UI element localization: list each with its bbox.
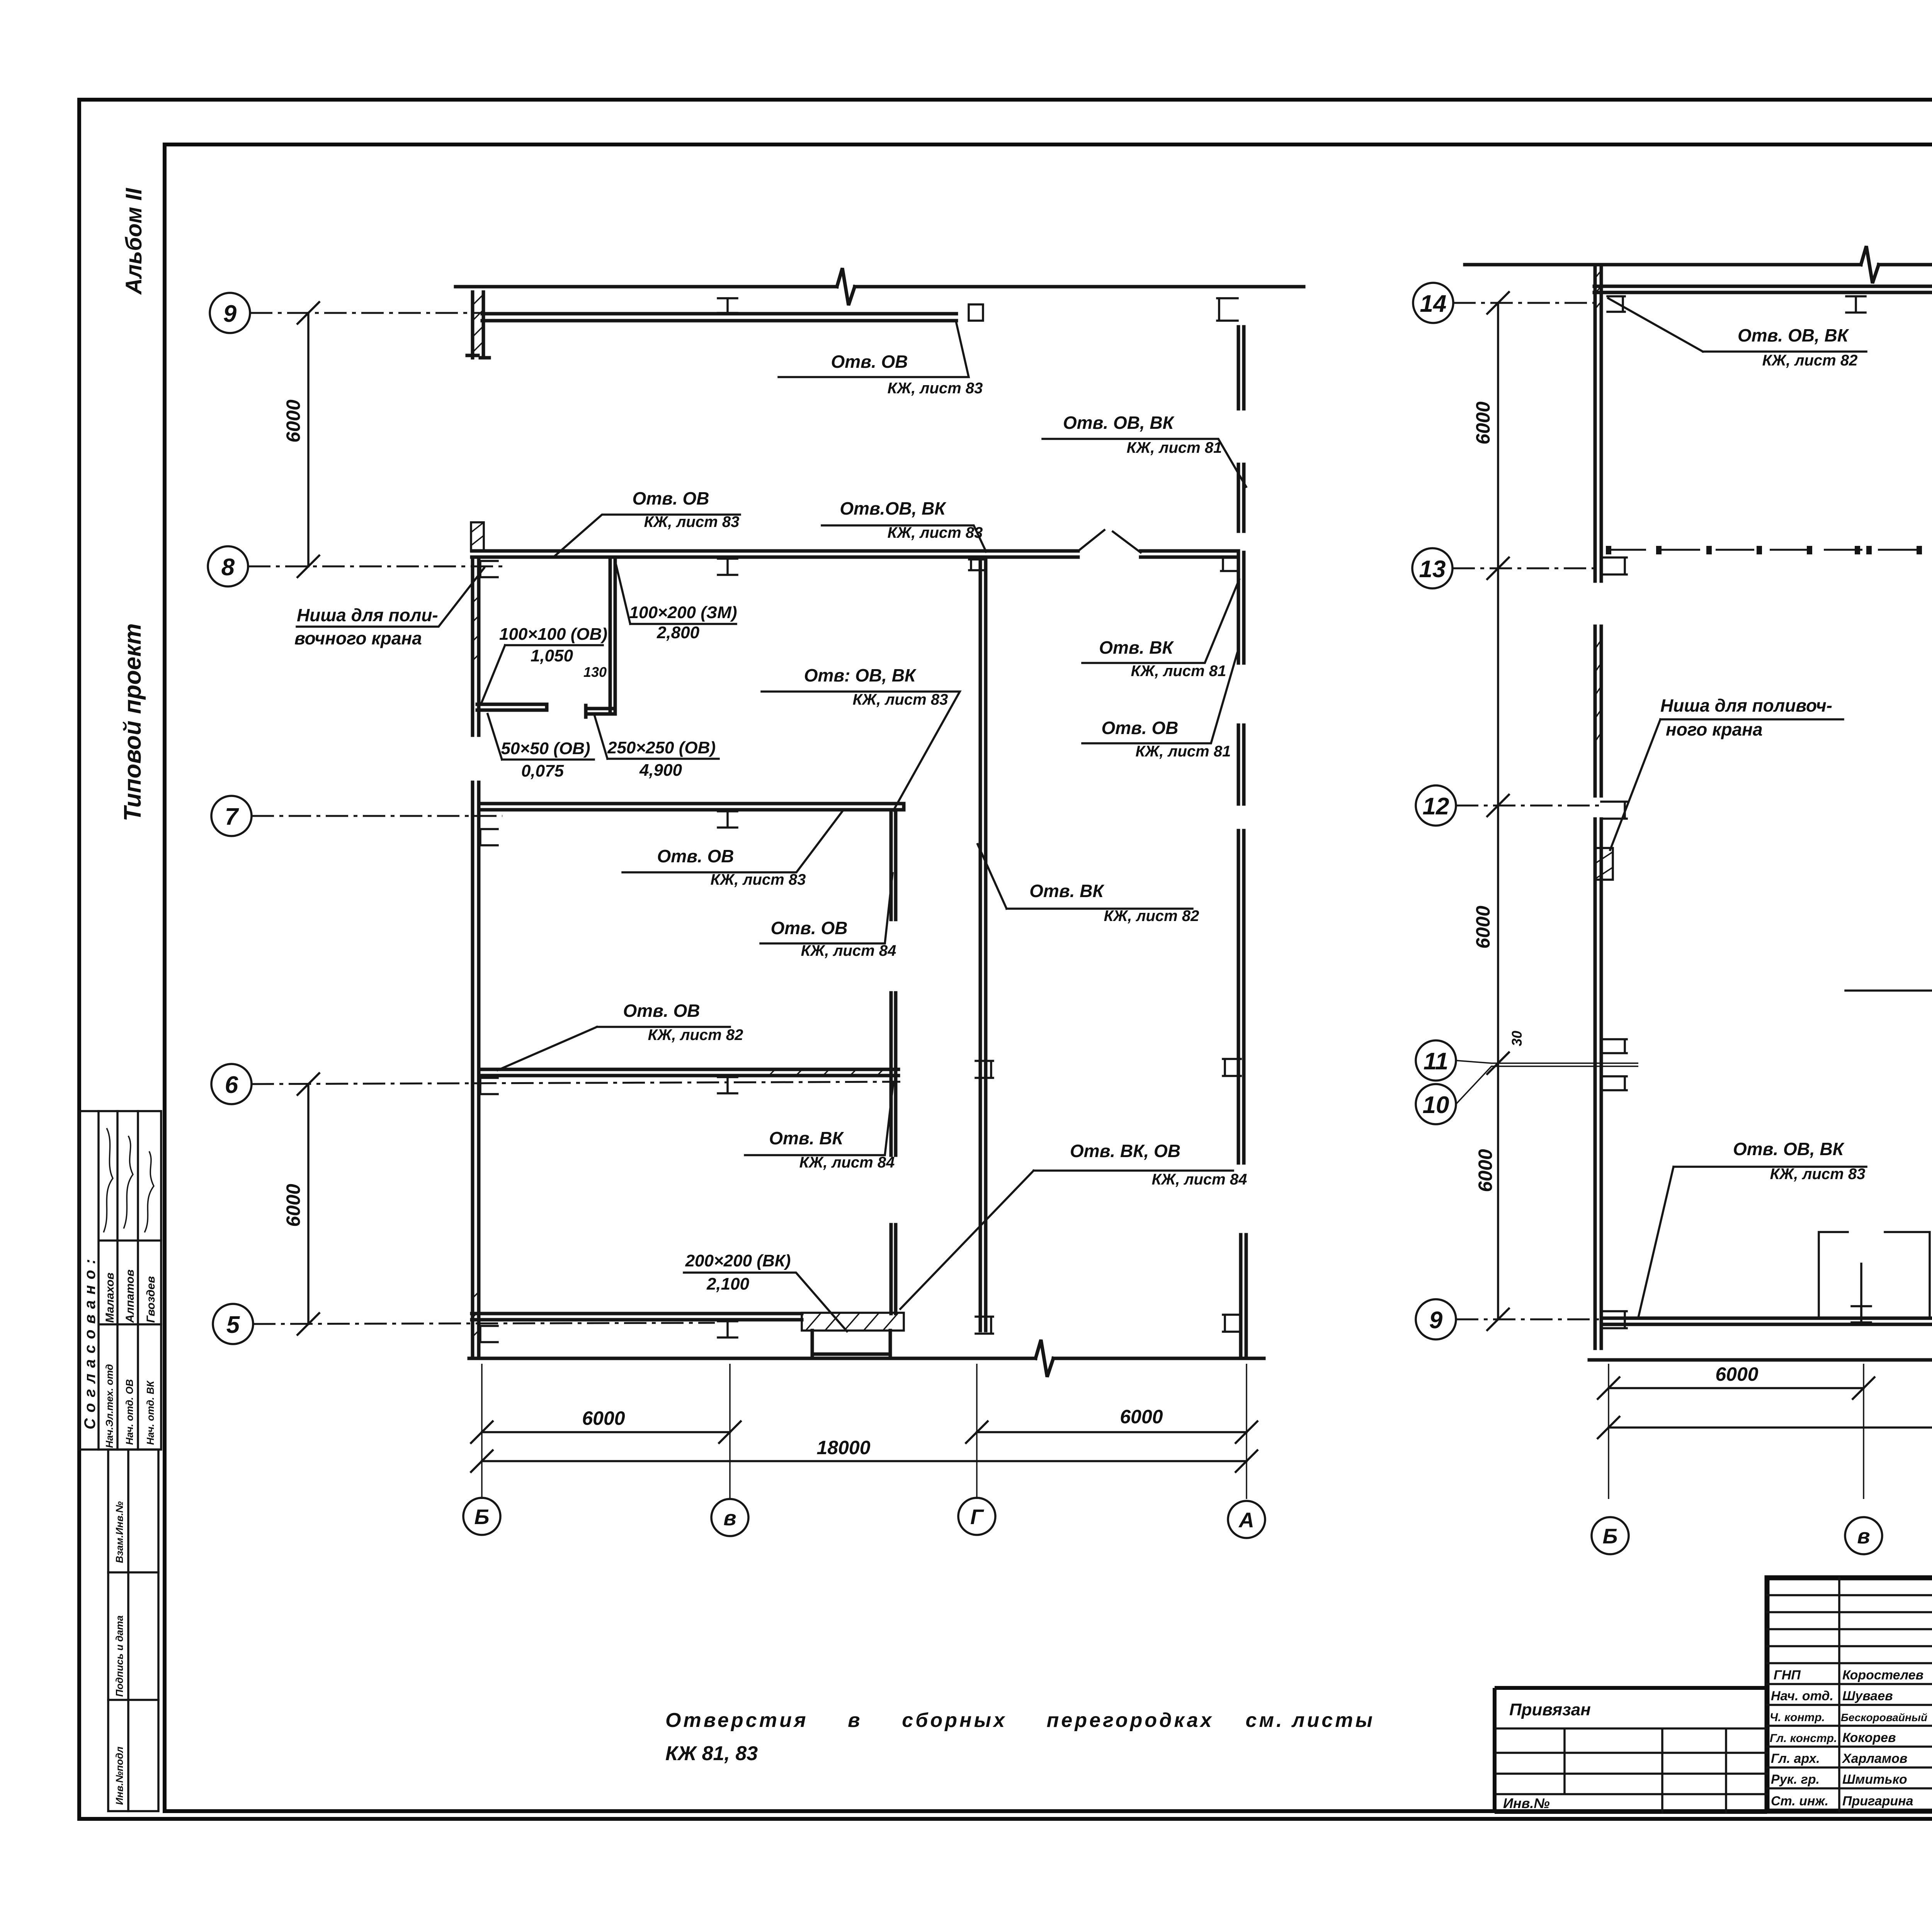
axis line 9 [250,312,484,314]
svg-text:1,050: 1,050 [531,646,573,665]
svg-text:6000: 6000 [1472,906,1494,948]
svg-text:Отв. ОВ: Отв. ОВ [770,918,847,938]
left pривязан box [1495,1688,1767,1812]
hatch B top [1595,270,1601,309]
door row 8 [1079,530,1141,552]
svg-text:18000: 18000 [816,1437,870,1458]
svg-text:Отв. ВК: Отв. ВК [1099,637,1174,658]
extension line G [976,1364,978,1499]
corner hatch [473,294,483,352]
svg-text:9: 9 [223,301,237,327]
svg-text:6000: 6000 [1475,1149,1496,1192]
column V/14 tick [1846,296,1866,313]
svg-text:КЖ, лист 81: КЖ, лист 81 [1127,439,1222,456]
svg-text:Отв. ВК: Отв. ВК [1029,881,1104,901]
column B/13 [1601,557,1627,574]
svg-text:Гл. арх.: Гл. арх. [1771,1751,1820,1766]
axis line 9r [1456,1319,1600,1320]
column A/8 [1221,557,1238,571]
svg-text:Отверстия в сборных: Отверстия в сборных перегородках см. лис… [665,1709,1372,1732]
wall A axis seg4 [1238,725,1244,804]
axis circle V right [1845,1517,1882,1554]
wall A axis seg1 [1238,327,1244,409]
svg-text:Альбом II: Альбом II [121,187,146,295]
vdim right line [1487,292,1509,1330]
svg-text:Гвоздев: Гвоздев [145,1276,157,1323]
svg-text:Бескоровайный: Бескоровайный [1841,1711,1927,1723]
svg-text:КЖ, лист 82: КЖ, лист 82 [1104,908,1199,925]
svg-text:6000: 6000 [1715,1363,1758,1385]
svg-text:6000: 6000 [282,399,304,442]
svg-text:Г: Г [970,1505,984,1529]
svg-text:50×50 (ОВ): 50×50 (ОВ) [501,739,590,758]
svg-text:0,075: 0,075 [521,761,564,780]
svg-text:КЖ, лист 83: КЖ, лист 83 [888,524,983,541]
svg-text:Отв. ОВ: Отв. ОВ [1101,718,1178,738]
svg-text:4,900: 4,900 [639,761,682,780]
axis circle 10 [1416,1084,1456,1124]
svg-text:Отв. ОВ: Отв. ОВ [632,488,709,508]
column B/6 [478,1078,498,1094]
svg-text:Пригарина: Пригарина [1842,1794,1913,1808]
axis circle 13 [1412,548,1452,588]
svg-text:Гл. констр.: Гл. констр. [1770,1732,1837,1745]
svg-text:Отв. ОВ, ВК: Отв. ОВ, ВК [1738,325,1849,345]
svg-text:Отв. ОВ: Отв. ОВ [657,846,734,866]
inner frame [165,144,1932,1811]
wall B axis right plan lower [1595,819,1601,1348]
svg-text:Отв. ОВ: Отв. ОВ [831,352,908,372]
wall row 14 [1594,286,1932,292]
svg-text:Отв. ОВ, ВК: Отв. ОВ, ВК [1733,1139,1845,1159]
svg-text:5: 5 [226,1312,240,1338]
wall A axis seg6 [1241,1235,1246,1357]
svg-text:КЖ, лист 84: КЖ, лист 84 [799,1154,895,1171]
svg-text:Отв. ВК, ОВ: Отв. ВК, ОВ [1070,1141,1180,1161]
extension line Vr [1863,1364,1864,1499]
column end row 9 [969,304,983,321]
svg-text:ного крана: ного крана [1666,719,1763,739]
LEFTPLAN [208,268,1304,1538]
signature table grid [1767,1578,1932,1811]
svg-text:КЖ, лист 83: КЖ, лист 83 [644,513,740,530]
axis circle 8 [208,546,248,586]
svg-text:Типовой проект: Типовой проект [119,623,146,821]
column V/6 tick [718,1077,737,1093]
svg-text:Согласовано:: Согласовано: [82,1253,99,1429]
svg-text:200×200 (ВК): 200×200 (ВК) [685,1251,791,1270]
corner wall row 9 [467,292,489,358]
axis line 11-10 [1456,1060,1638,1104]
wall B axis mid hatch [473,597,479,661]
svg-text:Отв. ВК: Отв. ВК [769,1128,844,1148]
NOTE [665,1709,1372,1765]
svg-text:12: 12 [1423,793,1449,820]
lower sidebar box [108,1450,158,1811]
svg-text:100×100 (ОВ): 100×100 (ОВ) [499,625,607,644]
wall row 5 hatched thick part [802,1313,904,1331]
svg-text:вочного крана: вочного крана [294,628,422,648]
svg-text:6000: 6000 [1472,401,1494,444]
axis line 8 [248,566,502,568]
column G/5 [976,1317,993,1334]
wall row 5 thin part [472,1314,802,1320]
door opening row 9 right plan [1819,1232,1930,1317]
axis circle 11 [1416,1040,1456,1081]
column B/7 [478,829,498,845]
svg-text:Подпись и дата: Подпись и дата [114,1615,125,1697]
svg-text:Инв.№: Инв.№ [1503,1795,1550,1811]
column B/9 tick [718,298,737,313]
svg-text:Нач. отд. ВК: Нач. отд. ВК [145,1380,156,1445]
column B/10 [1601,1076,1627,1090]
svg-text:8: 8 [221,554,235,581]
axis line 7 [252,815,502,817]
axis circle 12 [1416,785,1456,826]
svg-text:КЖ, лист 83: КЖ, лист 83 [888,380,983,397]
column G/6 [976,1061,993,1078]
svg-text:Б: Б [1603,1524,1618,1548]
partition V-G seg2 [891,993,896,1155]
svg-text:КЖ, лист 84: КЖ, лист 84 [1152,1171,1247,1188]
extension line V [729,1364,731,1499]
svg-text:Ч. контр.: Ч. контр. [1770,1711,1825,1724]
svg-text:Ниша для поливоч-: Ниша для поливоч- [1660,695,1832,715]
svg-text:250×250 (ОВ): 250×250 (ОВ) [607,738,716,757]
corner mark 14 left [1607,296,1625,312]
svg-text:КЖ, лист 83: КЖ, лист 83 [853,691,948,708]
svg-text:Отв: ОВ, ВК: Отв: ОВ, ВК [804,665,917,685]
svg-text:Привязан: Привязан [1509,1700,1591,1719]
dim 6000 B-V right [1598,1377,1874,1399]
svg-text:2,100: 2,100 [706,1275,750,1293]
axis circle 5 [213,1304,253,1344]
svg-text:Алпатов: Алпатов [124,1270,136,1323]
top exterior wall line [456,268,1304,305]
svg-text:Отв. ОВ: Отв. ОВ [623,1001,700,1021]
top exterior line right [1465,246,1932,283]
stamp row 1 signature [104,1128,113,1232]
dim 18000 right [1598,1417,1932,1438]
axis circle A [1228,1501,1265,1538]
bottom exterior wall line [469,1340,1264,1377]
partition blocks row 13 [1606,546,1932,554]
axis circle V [711,1499,748,1536]
axis circle B right [1592,1517,1629,1554]
axis line 12 [1456,805,1600,807]
axis line 14 [1453,302,1600,304]
svg-text:Нач.Эл.тех. отд: Нач.Эл.тех. отд [104,1364,115,1448]
TITLEBLOCK [1495,1578,1932,1813]
svg-text:130: 130 [583,664,607,680]
wall row 8 [472,551,1238,557]
svg-text:КЖ, лист 81: КЖ, лист 81 [1136,743,1231,760]
svg-text:Коростелев: Коростелев [1842,1668,1923,1682]
svg-text:Взам.Инв.№: Взам.Инв.№ [114,1501,125,1563]
row 6 hatch [769,1069,883,1076]
svg-text:КЖ, лист 82: КЖ, лист 82 [648,1026,743,1043]
niche hatch B right plan [1595,640,1601,742]
svg-text:Рук. гр.: Рук. гр. [1771,1772,1820,1787]
wall G axis [980,559,986,1331]
column V/9r tick [1852,1306,1871,1322]
wall A axis seg5 [1238,831,1244,1163]
svg-text:Нач. отд.: Нач. отд. [1771,1689,1833,1703]
svg-text:в: в [1857,1524,1870,1548]
svg-text:КЖ 81, 83: КЖ 81, 83 [665,1742,758,1765]
axis circle 9 [210,293,250,333]
svg-text:14: 14 [1420,291,1447,317]
axis line 13 [1452,568,1600,569]
column G/8 [969,559,985,570]
wall piece left room [477,704,547,710]
wall A axis seg2 [1238,464,1244,531]
svg-text:Инв.№подл: Инв.№подл [114,1747,125,1805]
svg-text:6000: 6000 [582,1407,625,1429]
column B/11 [1601,1039,1627,1053]
axis circle 9r [1416,1299,1456,1339]
svg-text:6: 6 [225,1072,238,1098]
column V/8 tick [718,559,737,575]
svg-text:Ст. инж.: Ст. инж. [1771,1794,1828,1808]
stamp row 2 signature [124,1136,133,1229]
svg-text:13: 13 [1419,556,1446,583]
wall B axis lower [473,782,479,1357]
column B/5 [478,1326,498,1342]
RIGHTPLAN [1412,202,1932,1554]
extension line Br [1608,1364,1609,1499]
extension line B [481,1364,483,1499]
wall B axis right plan mid [1595,626,1601,796]
column A/6 [1223,1059,1241,1076]
wall B axis upper [473,557,479,735]
axis circle B [463,1498,500,1535]
floor opening below row 5 [812,1331,890,1357]
svg-text:9: 9 [1429,1307,1443,1334]
wall row 9 right plan [1602,1318,1932,1324]
svg-text:Б: Б [474,1505,490,1529]
svg-text:30: 30 [1509,1031,1525,1046]
svg-text:Шуваев: Шуваев [1842,1689,1893,1703]
svg-text:Нач. отд. ОВ: Нач. отд. ОВ [124,1379,135,1445]
axis circle G [958,1498,995,1535]
partition V-G seg3 [891,1225,896,1314]
wall B axis right plan upper [1595,265,1601,581]
column B/8 [478,561,498,577]
main outline [1767,1578,1932,1811]
niche row 12 [1595,848,1613,880]
SIDEBAR [79,187,161,1811]
svg-text:КЖ, лист 81: КЖ, лист 81 [1131,663,1226,680]
vdim 9-8 line [298,302,319,577]
axis line 6 [252,1082,900,1084]
wall row 7 [480,804,904,810]
dim 6000 B-V [471,1421,741,1443]
svg-text:Отв.ОВ, ВК: Отв.ОВ, ВК [840,498,946,518]
svg-text:Харламов: Харламов [1842,1751,1907,1766]
svg-text:100×200 (ЗМ): 100×200 (ЗМ) [629,603,737,622]
svg-text:10: 10 [1423,1092,1449,1118]
svg-text:7: 7 [225,804,239,830]
stamp row 3 signature [145,1151,154,1232]
svg-text:КЖ, лист 83: КЖ, лист 83 [1770,1166,1866,1183]
svg-text:Отв. ОВ, ВК: Отв. ОВ, ВК [1063,413,1175,433]
svg-text:КЖ, лист 82: КЖ, лист 82 [1762,352,1858,369]
dashed partition row 13 [1607,549,1932,551]
partition small room vertical [610,557,615,713]
dim 6000 G-A [966,1421,1257,1443]
svg-text:Ниша для поли-: Ниша для поли- [297,605,438,625]
niche block row 8 [471,522,484,551]
column A/5 [1223,1315,1241,1332]
column B/12 [1601,802,1627,819]
svg-text:Кокорев: Кокорев [1842,1730,1896,1745]
svg-text:11: 11 [1423,1048,1448,1075]
stamp box [79,1111,161,1450]
column B/9 [1601,1311,1627,1328]
dim 18000 [471,1450,1257,1472]
column A/9 [1217,298,1238,321]
column V/5 tick [718,1321,737,1337]
partition small room foot [586,705,615,717]
axis line 5 [253,1323,715,1324]
vdim 6-5 line [298,1073,319,1335]
svg-text:КЖ, лист 84: КЖ, лист 84 [801,942,896,959]
wall row 6 [480,1069,898,1076]
svg-text:ГНП: ГНП [1774,1668,1801,1682]
axis circle 6 [211,1064,252,1104]
svg-text:2,800: 2,800 [656,623,700,642]
svg-text:6000: 6000 [282,1184,304,1227]
svg-text:6000: 6000 [1120,1406,1163,1428]
wall row 9 [482,314,956,321]
column V/7 tick [718,811,737,828]
svg-text:КЖ, лист 83: КЖ, лист 83 [711,871,806,888]
svg-text:Шмитько: Шмитько [1842,1772,1907,1787]
wall A axis seg3 [1238,552,1244,663]
partition V-G seg1 [891,811,896,919]
svg-text:А: А [1238,1508,1254,1532]
svg-text:в: в [723,1506,736,1530]
extension line A [1246,1364,1247,1499]
privyazan rows [1497,1728,1767,1813]
axis circle 7 [211,796,252,836]
axis circle 14 [1413,283,1453,323]
svg-text:Малахов: Малахов [104,1273,116,1323]
bottom exterior line right plan [1589,1358,1932,1362]
wall B hatch low [473,1292,479,1337]
